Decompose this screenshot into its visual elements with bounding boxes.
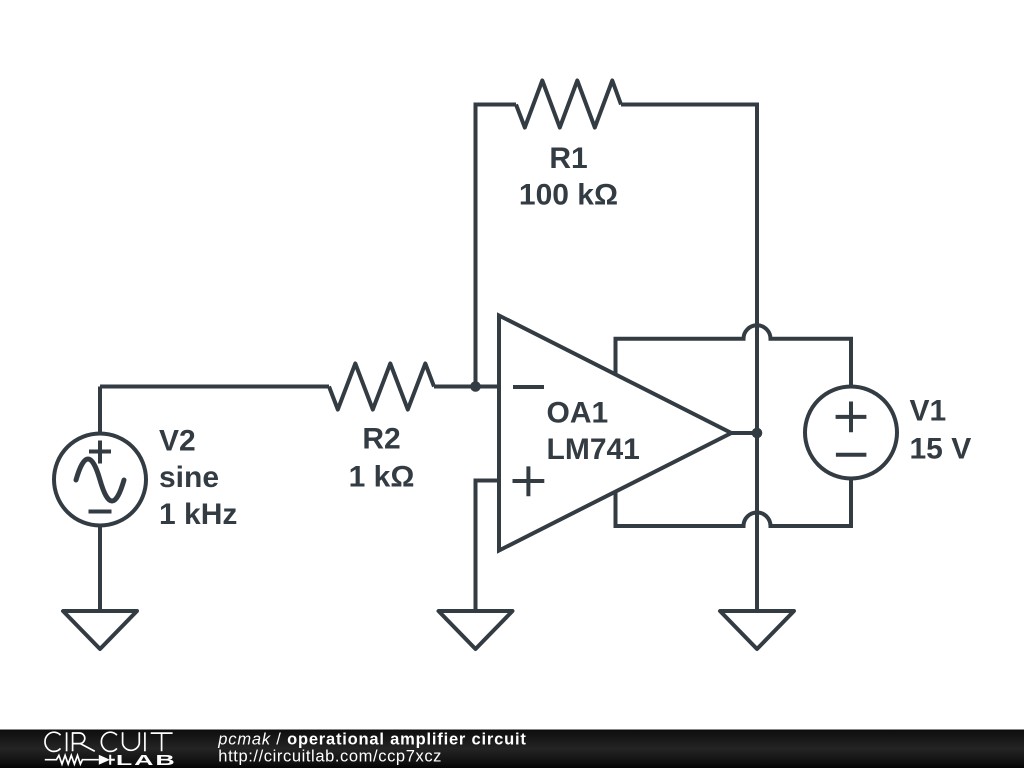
- wire R1 to output node vertical: [621, 105, 757, 612]
- wire V2 bottom lead to ground: [98, 527, 102, 612]
- wire node A to R1 (feedback riser): [476, 105, 517, 387]
- voltage source V2: [54, 434, 146, 526]
- svg-text:LM741: LM741: [547, 433, 640, 466]
- wire op-amp output: [731, 431, 757, 435]
- CircuitLab logo diode triangle: [99, 755, 110, 765]
- resistor R1: [516, 81, 621, 128]
- node A (inverting input junction): [470, 381, 481, 392]
- svg-text:pcmak / operational amplifier: pcmak / operational amplifier circuit: [217, 731, 526, 749]
- svg-text:R2: R2: [362, 423, 400, 456]
- ground (V2): [63, 611, 137, 649]
- svg-text:LAB: LAB: [116, 751, 177, 768]
- CircuitLab logo resistor-diode glyph: [45, 755, 115, 765]
- voltage source V1: [805, 387, 897, 479]
- wire op-amp V- rail to V1 (with hop): [616, 480, 852, 527]
- svg-text:V1: V1: [910, 395, 947, 428]
- CircuitLab logo wordmark CIRCUIT (stroked thin letters): [45, 732, 173, 751]
- op-amp OA1: [499, 316, 731, 551]
- wire V2 top lead: [98, 387, 102, 433]
- wire non-inverting input to ground: [476, 481, 500, 612]
- svg-text:http://circuitlab.com/ccp7xcz: http://circuitlab.com/ccp7xcz: [218, 748, 442, 766]
- wire op-amp V+ rail to V1 (with hop): [616, 325, 852, 385]
- svg-text:OA1: OA1: [547, 397, 609, 430]
- ground (output / V1 negative): [720, 611, 794, 649]
- svg-text:R1: R1: [549, 142, 587, 175]
- svg-text:V2: V2: [159, 425, 196, 458]
- svg-text:1 kΩ: 1 kΩ: [349, 461, 415, 494]
- wire V2 to R2: [100, 385, 329, 389]
- svg-text:sine: sine: [159, 461, 219, 494]
- node B (output junction): [752, 428, 763, 439]
- svg-text:1 kHz: 1 kHz: [159, 498, 237, 531]
- svg-text:100 kΩ: 100 kΩ: [519, 179, 618, 212]
- op-amp inverting input symbol: [513, 385, 544, 389]
- resistor R2: [329, 364, 434, 410]
- op-amp non-inverting input symbol: [513, 466, 545, 496]
- wire R2 to node A and op-amp inverting input: [434, 385, 499, 389]
- ground (non-inverting input): [439, 611, 513, 649]
- svg-text:15 V: 15 V: [910, 433, 972, 466]
